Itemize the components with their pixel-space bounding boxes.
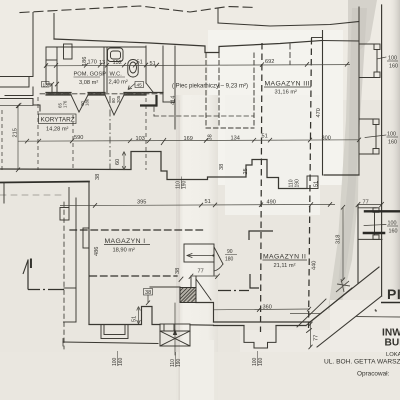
corridor top wall dark band fill xyxy=(46,93,71,95)
wall to chimney xyxy=(150,286,180,288)
window W1 right wall xyxy=(359,43,377,45)
svg-text:160: 160 xyxy=(388,140,397,146)
small ticks near 13 left xyxy=(50,82,59,87)
svg-text:31,16 m²: 31,16 m² xyxy=(275,90,298,96)
svg-text:BUD: BUD xyxy=(385,338,400,349)
toilet xyxy=(128,60,138,78)
svg-text:205: 205 xyxy=(116,95,121,103)
label KORYTARZ boxed xyxy=(39,114,77,124)
dim chain y205 xyxy=(60,204,335,205)
pencil dot xyxy=(375,310,377,312)
ground line end tick xyxy=(62,339,64,347)
closet box corner pom.gosp xyxy=(46,59,57,61)
svg-text:692: 692 xyxy=(265,59,274,65)
svg-text:170: 170 xyxy=(88,60,97,66)
leader W2 xyxy=(365,135,386,138)
svg-text:180: 180 xyxy=(225,257,234,263)
svg-text:77: 77 xyxy=(198,269,204,275)
svg-text:51: 51 xyxy=(132,316,138,322)
ticks top chain xyxy=(44,62,349,68)
wall: upper building outline right part xyxy=(217,9,219,23)
svg-text:MAGAZYN III: MAGAZYN III xyxy=(265,81,311,88)
light upper paper zone xyxy=(0,0,400,100)
wall: right outer wall top stub xyxy=(358,7,360,22)
dashed axis magazyn III left xyxy=(261,43,263,332)
wall: small step xyxy=(46,84,52,93)
door swing V right xyxy=(105,95,114,115)
wall: long inner vertical x322.5 xyxy=(322,31,324,176)
wall: right inner vertical lower xyxy=(357,205,359,284)
dashed line y116 xyxy=(154,115,254,117)
svg-text:LOKAL: LOKAL xyxy=(386,352,400,358)
cupboard at pom.gosp top wall xyxy=(64,44,73,59)
svg-text:100: 100 xyxy=(388,56,397,62)
extra inner diagonal fragment xyxy=(297,299,326,327)
wall: bottom right of stairs xyxy=(190,324,214,326)
svg-text:MAGAZYN I: MAGAZYN I xyxy=(105,238,146,245)
stairs mid line xyxy=(160,330,190,332)
svg-text:190: 190 xyxy=(176,358,182,367)
dim 77 bottom right xyxy=(290,313,320,315)
svg-text:( Piec piekarniczy – 9,23 m²): ( Piec piekarniczy – 9,23 m²) xyxy=(172,84,248,90)
svg-text:169: 169 xyxy=(184,136,193,142)
corridor upper-left stepped wall xyxy=(0,99,40,112)
title area light zone xyxy=(330,300,400,400)
short verticals below stairs left xyxy=(163,325,165,332)
sink xyxy=(108,48,124,62)
svg-text:160: 160 xyxy=(389,64,398,70)
section line dash-dot left xyxy=(28,289,64,291)
hatching corridor wall segment 1 xyxy=(48,92,69,95)
svg-text:590: 590 xyxy=(74,135,83,141)
stairs fan lines xyxy=(160,331,190,346)
svg-text:51: 51 xyxy=(262,133,268,139)
svg-text:300: 300 xyxy=(322,135,331,141)
wall: pom.gosp left outer xyxy=(45,47,47,84)
short dashed stub x290 xyxy=(289,44,291,64)
door leaf 45 xyxy=(146,83,153,92)
svg-text:18,90 m²: 18,90 m² xyxy=(113,248,136,254)
svg-text:3,08 m²: 3,08 m² xyxy=(79,80,98,86)
svg-text:60: 60 xyxy=(115,159,121,165)
dashed interior line upper xyxy=(70,229,205,231)
svg-text:51: 51 xyxy=(137,59,143,65)
svg-text:176: 176 xyxy=(63,100,68,108)
ticks y205 chain xyxy=(93,202,332,208)
thick marker stroke above W3 xyxy=(365,210,400,212)
dashed oven outline bottom xyxy=(206,127,254,129)
dim vertical 215 xyxy=(17,106,19,171)
dim text 45 boxed xyxy=(135,82,144,88)
wall: short vertical from boundary to top wall xyxy=(53,14,55,40)
svg-text:PIW: PIW xyxy=(387,286,400,302)
wall: magazyn I outer left xyxy=(88,182,90,325)
wall: short horizontal at dashed axis top xyxy=(312,37,323,39)
section line corner L2 xyxy=(250,274,259,288)
wall: pom.gosp left inner xyxy=(56,47,58,93)
corridor interior dashed verticals xyxy=(2,97,146,170)
section line dash-dot middle xyxy=(218,290,249,292)
corridor bottom wall and stepped mid wall xyxy=(0,152,307,189)
svg-text:100: 100 xyxy=(388,221,397,227)
faint dashed line left xyxy=(0,194,62,196)
dashed oven outline verticals xyxy=(205,53,207,128)
svg-text:14,28 m²: 14,28 m² xyxy=(46,127,69,133)
door leaf diagonal upper with arc xyxy=(214,247,223,264)
svg-text:51: 51 xyxy=(205,199,211,205)
wall: magazyn I second left line xyxy=(75,198,77,322)
dim vertical 60 with arrows xyxy=(123,152,125,171)
dim text 13 boxed left xyxy=(42,82,50,88)
svg-text:KORYTARZ: KORYTARZ xyxy=(41,117,75,124)
section arrow xyxy=(27,260,29,290)
dim 77 small line xyxy=(191,275,218,277)
wall: wc right xyxy=(145,46,147,83)
hatching corridor wall segment 2 xyxy=(90,92,102,95)
pencil star mark xyxy=(336,279,350,292)
svg-text:215: 215 xyxy=(13,128,19,137)
svg-text:134: 134 xyxy=(231,135,240,141)
tick under 38 box bottom xyxy=(147,295,149,303)
dashed interior line lower xyxy=(90,275,177,277)
stairs box xyxy=(160,324,190,346)
svg-text:38: 38 xyxy=(208,134,214,140)
svg-text:395: 395 xyxy=(137,199,146,205)
door leaf diagonal magazyn II xyxy=(196,279,211,300)
dim text 38 boxed bottom xyxy=(144,289,153,296)
dim 77 top right xyxy=(358,204,382,206)
svg-text:190: 190 xyxy=(295,179,301,188)
dim vertical 51 bottom left xyxy=(138,307,140,325)
svg-text:38: 38 xyxy=(145,290,151,296)
svg-text:490: 490 xyxy=(267,200,276,206)
dim extension left xyxy=(0,105,33,107)
svg-text:25: 25 xyxy=(243,168,249,174)
stoop inner xyxy=(104,325,125,335)
wall: magazyn I block top xyxy=(0,182,89,183)
svg-text:160: 160 xyxy=(389,229,398,235)
small box on left wall xyxy=(60,208,69,221)
south stoop steps xyxy=(244,326,276,349)
door swing V left xyxy=(71,95,79,112)
leader W3 xyxy=(364,225,386,226)
svg-text:152: 152 xyxy=(113,60,122,66)
svg-text:W.C.: W.C. xyxy=(110,72,123,78)
window W3 right wall xyxy=(358,207,376,209)
wall: corridor top double with center dashes xyxy=(46,92,71,94)
title block border line xyxy=(356,316,400,319)
svg-text:440: 440 xyxy=(312,261,318,270)
svg-text:13: 13 xyxy=(43,82,49,88)
ticks corridor chain xyxy=(25,138,361,145)
axis end arrow tick xyxy=(307,329,312,333)
thick wall marks under wc xyxy=(140,104,157,106)
chamfer diagonals inner xyxy=(310,267,379,322)
svg-text:POM. GOSP: POM. GOSP xyxy=(74,72,107,78)
svg-text:180: 180 xyxy=(85,98,90,106)
svg-text:13: 13 xyxy=(99,60,105,66)
wall: magazyn I bottom with notch xyxy=(89,307,160,325)
dim chain corridor y140.7 xyxy=(18,140,359,141)
wall: connector left xyxy=(64,287,76,289)
passage rect with arrow xyxy=(184,244,214,262)
svg-text:Opracował:: Opracował: xyxy=(357,371,390,378)
svg-text:77: 77 xyxy=(314,335,320,341)
bottom paper zone xyxy=(0,352,400,400)
oven block left wall xyxy=(162,46,164,102)
section line corner L1 xyxy=(249,231,273,240)
svg-text:77: 77 xyxy=(363,200,369,206)
bright central zone xyxy=(208,30,343,185)
svg-text:100: 100 xyxy=(387,132,396,138)
dim chain top y65 xyxy=(45,65,350,66)
svg-text:I: I xyxy=(29,255,33,271)
wall: rooms interior top xyxy=(46,46,146,48)
wall: right outer wall full xyxy=(381,5,383,296)
svg-text:45: 45 xyxy=(137,83,143,89)
svg-text:103: 103 xyxy=(136,136,145,142)
stairs direction line with arrow xyxy=(174,303,176,355)
svg-text:21,11 m²: 21,11 m² xyxy=(274,263,296,269)
svg-text:470: 470 xyxy=(316,108,322,117)
wall: horizontal y175 right xyxy=(324,174,359,176)
wall: left stub vertical xyxy=(3,183,5,204)
wall: right inner wall xyxy=(358,22,360,176)
right paper edge shading xyxy=(389,0,400,400)
svg-text:38: 38 xyxy=(175,268,181,274)
svg-text:2,40 m²: 2,40 m² xyxy=(109,80,128,86)
left edge box xyxy=(0,76,33,78)
svg-text:160: 160 xyxy=(258,357,264,366)
corridor dash-dot vertical xyxy=(109,96,111,170)
svg-text:UL. BOH. GETTA WARSZ: UL. BOH. GETTA WARSZ xyxy=(324,359,400,366)
arrow near 45 door xyxy=(128,84,135,90)
svg-text:160: 160 xyxy=(118,357,124,366)
stoop outer xyxy=(101,325,128,339)
wall: magazyn II south double xyxy=(196,303,214,323)
dashed axis magazyn III right xyxy=(309,38,312,331)
svg-text:186: 186 xyxy=(82,57,88,66)
window W2 right wall xyxy=(359,118,377,120)
fold crease edge line xyxy=(179,100,180,400)
svg-text:51: 51 xyxy=(314,181,320,187)
dashed left boundary xyxy=(63,202,65,349)
wire: dashed plot boundary along top xyxy=(20,6,256,13)
svg-text:318: 318 xyxy=(336,235,342,244)
svg-text:90: 90 xyxy=(227,249,233,255)
svg-text:MAGAZYN II: MAGAZYN II xyxy=(263,254,306,261)
svg-text:414: 414 xyxy=(171,96,177,105)
dim 318 vertical xyxy=(342,207,344,280)
wall: left boundary vertical xyxy=(32,13,34,77)
vertical fold band xyxy=(176,95,218,400)
svg-text:486: 486 xyxy=(94,247,100,256)
svg-text:51: 51 xyxy=(150,61,156,67)
svg-text:360: 360 xyxy=(263,304,272,310)
dim 360 line xyxy=(214,308,310,311)
window opening in mid wall xyxy=(307,176,318,189)
wall: rooms top outer wall with notch xyxy=(54,39,322,53)
chamfer outer diagonal xyxy=(317,296,382,347)
leader W1 xyxy=(377,57,386,59)
ground outer line bottom xyxy=(63,342,158,344)
chimney hatched xyxy=(180,288,196,303)
chimney verticals xyxy=(190,276,192,288)
svg-text:190: 190 xyxy=(182,180,188,189)
svg-text:38: 38 xyxy=(95,174,101,180)
right scan shading band xyxy=(328,0,377,310)
wall: inner face to right wall xyxy=(322,40,359,43)
thick marker stroke near W3 xyxy=(364,232,384,235)
svg-text:38: 38 xyxy=(219,164,225,170)
wall: divider pom.gosp / wc double xyxy=(103,47,105,93)
hatching corridor wall segment 3 xyxy=(126,92,143,95)
pilaster bump xyxy=(83,228,89,248)
